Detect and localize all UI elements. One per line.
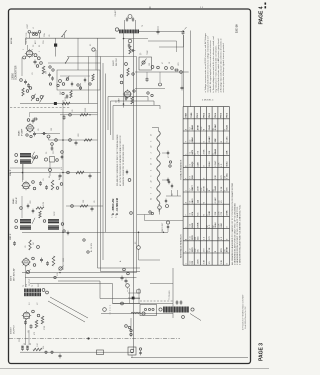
resistor R33 bbox=[80, 205, 88, 207]
IF strip right rail bbox=[62, 100, 64, 270]
svg-text:1: 1 bbox=[186, 263, 188, 264]
capacitor C15 bbox=[40, 258, 43, 263]
svg-text:C10: C10 bbox=[53, 151, 55, 154]
svg-text:6: 6 bbox=[151, 176, 153, 177]
svg-text:270: 270 bbox=[207, 188, 209, 191]
left of box capacitor b bbox=[51, 76, 54, 81]
svg-text:2.2M: 2.2M bbox=[43, 202, 45, 206]
capacitor C31 bbox=[75, 141, 78, 146]
capacitor C23 drop bbox=[146, 72, 148, 77]
FM coil form left leg bbox=[124, 20, 126, 30]
svg-text:NC: NC bbox=[197, 249, 199, 253]
terminal s4 bbox=[67, 171, 70, 174]
cap above trimmer bbox=[51, 143, 54, 146]
junction circle J2 bbox=[166, 221, 169, 224]
vertical drop 176 bbox=[176, 41, 178, 52]
wire row 168 bbox=[10, 167, 60, 169]
FM IF transformer T4B secondary bbox=[48, 225, 59, 229]
junction cluster bbox=[182, 30, 185, 35]
bus wire AVC no.2 bbox=[101, 57, 141, 272]
osc box capacitor b bbox=[84, 78, 86, 83]
svg-text:OUTPUT: OUTPUT bbox=[29, 278, 31, 286]
svg-text:a. Voltage measurements are at: a. Voltage measurements are at 20,000 oh… bbox=[204, 33, 207, 93]
svg-text:VOL: VOL bbox=[57, 272, 59, 276]
T4 tuning arrows bbox=[32, 218, 35, 224]
capacitor C22 bbox=[174, 69, 179, 72]
FM grid marks bbox=[128, 43, 130, 48]
capacitor C30 bbox=[63, 115, 66, 120]
svg-text:6BA6: 6BA6 bbox=[12, 198, 15, 204]
capacitor C17 bbox=[24, 320, 27, 325]
svg-text:7: 7 bbox=[151, 193, 153, 194]
coupling wire upper bbox=[58, 281, 140, 299]
svg-text:IF - 10.7MC-FM: IF - 10.7MC-FM bbox=[116, 198, 119, 215]
bus wire no.4 bbox=[105, 74, 107, 233]
T3 right side terminal bbox=[33, 157, 35, 159]
resistor R2 bbox=[42, 66, 45, 74]
wire lamp drop bbox=[131, 355, 133, 358]
wire row grid return bbox=[30, 112, 98, 114]
svg-text:33K: 33K bbox=[215, 175, 217, 179]
svg-text:47: 47 bbox=[168, 156, 170, 158]
capacitor C20 bbox=[59, 354, 62, 359]
below box terminal bbox=[62, 92, 64, 94]
svg-text:B+ 15-16V: B+ 15-16V bbox=[91, 242, 93, 252]
audio wire second row bbox=[25, 277, 137, 279]
svg-text:6: 6 bbox=[151, 141, 153, 142]
V4 pin terminal bbox=[32, 257, 35, 260]
terminal m2 bbox=[157, 66, 160, 69]
resistor R16 bbox=[127, 68, 129, 76]
capacitor C29 bbox=[125, 96, 127, 101]
wire FM IF row bbox=[135, 71, 189, 73]
T7 terminal right bbox=[191, 308, 194, 311]
wire row 214 bbox=[137, 214, 152, 216]
svg-text:R14: R14 bbox=[43, 346, 45, 349]
svg-text:b. Socket voltages measured to: b. Socket voltages measured to B- unless… bbox=[212, 36, 215, 92]
bus wire B+ no.1 bbox=[98, 38, 141, 268]
rail junction dot b bbox=[62, 172, 64, 174]
FM IF transformer T4B primary bbox=[48, 219, 59, 223]
wire trimmer top bbox=[51, 145, 53, 147]
bus tap capacitor bbox=[126, 170, 128, 175]
svg-text:R1: R1 bbox=[39, 45, 41, 47]
wire row osc bbox=[48, 62, 101, 64]
pilot lamp box bbox=[128, 347, 136, 355]
svg-text:6.3AC: 6.3AC bbox=[208, 136, 211, 143]
osc box wire bbox=[60, 75, 90, 77]
antenna coil circle a bbox=[32, 33, 34, 35]
heater cap a bbox=[167, 151, 170, 156]
wire right rows bbox=[148, 40, 177, 42]
svg-text:270: 270 bbox=[224, 249, 226, 252]
svg-text:LOOP: LOOP bbox=[27, 23, 29, 29]
wire row 88 bbox=[135, 88, 165, 90]
svg-text:.002: .002 bbox=[30, 201, 32, 205]
junction dot on chassis line bbox=[87, 337, 89, 339]
svg-text:minimum position, dial lamps l: minimum position, dial lamps lighted, ch… bbox=[222, 43, 225, 93]
svg-text:T5: T5 bbox=[32, 285, 34, 287]
svg-text:CONVERTER: CONVERTER bbox=[16, 65, 18, 80]
terminal fm d bbox=[125, 63, 128, 66]
speaker lead 1 bbox=[50, 297, 88, 318]
svg-text:T5: T5 bbox=[23, 285, 25, 287]
svg-text:MAXIMUM SYMMETRY OF RESPONSE C: MAXIMUM SYMMETRY OF RESPONSE CURVE bbox=[122, 144, 125, 186]
left of box terminal c bbox=[49, 83, 51, 85]
heater wire top hook bbox=[152, 128, 159, 132]
heater side terminal b bbox=[169, 165, 171, 167]
wire row 303 bbox=[113, 303, 174, 305]
svg-text:3.3K: 3.3K bbox=[197, 162, 199, 167]
filter electrolytic C19B bbox=[26, 346, 29, 351]
switch vertical 1 bbox=[129, 288, 131, 304]
heater bottom terminal bbox=[158, 206, 162, 210]
svg-text:PRI AND SEC WINDINGS OF RATIO: PRI AND SEC WINDINGS OF RATIO DET TRANS … bbox=[116, 134, 119, 186]
svg-text:5: 5 bbox=[39, 51, 41, 52]
capacitor C16 bbox=[46, 261, 49, 266]
AVC junction dot a bbox=[138, 232, 140, 234]
osc coil terminal 2 bbox=[62, 83, 65, 86]
resistor R1 bbox=[22, 88, 24, 96]
bus wire no.5 bbox=[133, 33, 135, 352]
svg-text:V-10: V-10 bbox=[190, 224, 192, 228]
nested corner wire 1 bbox=[108, 97, 148, 131]
wire row 56 bbox=[67, 56, 137, 58]
wire corner to table bbox=[145, 215, 184, 221]
fuse box bbox=[97, 350, 104, 355]
V3 pin terminal bbox=[32, 181, 35, 184]
svg-text:40: 40 bbox=[30, 343, 32, 345]
T4 terminal top bbox=[15, 220, 18, 223]
svg-text:85: 85 bbox=[213, 189, 215, 191]
pot arrow bbox=[142, 61, 145, 64]
stage feed stub 4 bbox=[66, 205, 103, 207]
svg-text:7: 7 bbox=[186, 215, 188, 216]
terminal fm a bbox=[120, 75, 123, 78]
chart cell entries bbox=[186, 124, 229, 265]
capacitor near E2 b bbox=[125, 279, 128, 284]
capacitor C3 bbox=[27, 83, 30, 88]
osc box terminal c bbox=[89, 83, 91, 85]
svg-text:3: 3 bbox=[151, 152, 153, 153]
rail junction dot a bbox=[62, 139, 64, 141]
svg-text:100: 100 bbox=[149, 63, 151, 66]
tube voltage and resistance chart grid bbox=[183, 107, 229, 266]
row 88 terminal b bbox=[151, 94, 153, 96]
capacitor C11 bbox=[45, 185, 48, 190]
wire det to output bbox=[25, 266, 27, 287]
svg-text:470K: 470K bbox=[203, 186, 205, 192]
T3 tuning arrows bbox=[32, 152, 35, 158]
capacitor C12 bbox=[27, 204, 30, 209]
svg-text:RATIO DET: RATIO DET bbox=[161, 222, 164, 232]
FM antenna caps bbox=[126, 17, 128, 22]
2nd IF amp tube V3 bbox=[21, 181, 30, 190]
svg-text:.05: .05 bbox=[38, 129, 40, 132]
svg-text:1: 1 bbox=[151, 170, 153, 171]
svg-text:C2: C2 bbox=[33, 45, 35, 47]
lamp lead terminal 1 bbox=[130, 329, 132, 331]
capacitor C7 molded bbox=[54, 102, 57, 105]
svg-text:3: 3 bbox=[32, 49, 34, 50]
choke terminal bbox=[142, 312, 145, 315]
terminal s3 bbox=[69, 139, 72, 142]
svg-text:L1: L1 bbox=[33, 27, 35, 29]
svg-text:4: 4 bbox=[186, 202, 188, 203]
svg-text:6BA6: 6BA6 bbox=[191, 136, 194, 142]
det row terminal a bbox=[63, 230, 65, 232]
stage feed stub 1 bbox=[60, 114, 98, 116]
svg-text:0: 0 bbox=[207, 215, 209, 216]
converter tube V1 12BE6 bbox=[25, 49, 34, 58]
terminal osc plate bbox=[29, 87, 32, 90]
svg-text:.01: .01 bbox=[43, 179, 45, 182]
V5 grid terminal bbox=[37, 314, 40, 317]
terminal avc row b bbox=[87, 251, 89, 253]
terminal f1 bbox=[37, 246, 40, 249]
AVC junction dot b bbox=[163, 232, 164, 233]
left rail junction bbox=[22, 172, 24, 174]
terminal on B+ bus b bbox=[51, 351, 53, 353]
svg-text:4: 4 bbox=[151, 187, 153, 188]
svg-text:V-8: V-8 bbox=[190, 201, 192, 204]
audio coupling wire bbox=[22, 272, 137, 274]
terminal osc grid bbox=[26, 90, 29, 93]
junction dot FM bbox=[123, 38, 125, 40]
svg-text:15C-16: 15C-16 bbox=[235, 24, 239, 33]
svg-text:E2: E2 bbox=[135, 242, 137, 244]
output tube V5 6V6 bbox=[22, 311, 31, 320]
svg-text:may vary plus or minus 20 perc: may vary plus or minus 20 percent with n… bbox=[214, 45, 217, 93]
resistor R30 bbox=[80, 114, 88, 117]
terminal m5 bbox=[180, 71, 183, 74]
AVC line long bbox=[22, 231, 168, 233]
V5 pin terminal bbox=[32, 310, 35, 313]
svg-text:PRI: PRI bbox=[26, 284, 28, 287]
svg-text:IF - 455KC-AM: IF - 455KC-AM bbox=[112, 199, 115, 215]
svg-text:V-6: V-6 bbox=[190, 176, 192, 179]
svg-text:3.3K: 3.3K bbox=[221, 259, 223, 264]
svg-text:6AT6: 6AT6 bbox=[10, 275, 13, 281]
switch vertical 2 bbox=[138, 288, 140, 304]
left rail wire bbox=[22, 164, 24, 182]
svg-text:V-13: V-13 bbox=[190, 261, 192, 265]
svg-text:1N2 OSC 1S5: 1N2 OSC 1S5 bbox=[26, 33, 28, 44]
terminal m1 bbox=[151, 66, 154, 69]
2nd IF transformer T3 secondary bbox=[20, 159, 31, 163]
svg-text:.05: .05 bbox=[94, 201, 96, 204]
wire FM row 38 bbox=[124, 38, 149, 40]
wire E2 drop bbox=[138, 232, 140, 245]
bus wire no.6 bbox=[136, 57, 138, 273]
resistor R6 bbox=[51, 180, 54, 190]
terminal m3 bbox=[165, 67, 168, 70]
svg-text:1: 1 bbox=[186, 190, 188, 191]
svg-text:6BA6: 6BA6 bbox=[226, 161, 229, 167]
V1 pin 7 terminal bbox=[37, 57, 40, 60]
svg-text:2ND IF: 2ND IF bbox=[16, 196, 18, 204]
T3 terminal top bbox=[15, 154, 18, 157]
det row capacitor bbox=[67, 231, 69, 236]
svg-text:.01: .01 bbox=[32, 73, 34, 76]
heater tick labels bbox=[151, 134, 153, 200]
interstage dashed lead bbox=[140, 300, 173, 302]
svg-text:6BA6: 6BA6 bbox=[18, 130, 21, 136]
svg-text:AERIAL: AERIAL bbox=[10, 37, 13, 44]
V7 side terminal bbox=[133, 90, 135, 92]
top frame tick 1 bbox=[149, 7, 151, 10]
svg-text:150: 150 bbox=[219, 200, 221, 203]
svg-text:FM OSC: FM OSC bbox=[116, 57, 118, 66]
svg-text:C19: C19 bbox=[19, 339, 21, 342]
svg-text:FM ANT: FM ANT bbox=[114, 9, 117, 16]
terminal fm b bbox=[120, 81, 123, 84]
heater bottom wire bbox=[159, 209, 161, 214]
capacitor near E2 a bbox=[121, 276, 124, 281]
below box capacitor bbox=[66, 94, 69, 99]
svg-text:PAGE 3: PAGE 3 bbox=[259, 343, 265, 361]
T4B terminal left bbox=[43, 220, 46, 223]
svg-text:33K: 33K bbox=[215, 211, 217, 215]
svg-text:PIN 3: PIN 3 bbox=[209, 113, 211, 118]
svg-text:6BA6: 6BA6 bbox=[208, 161, 211, 167]
svg-text:.002: .002 bbox=[78, 134, 80, 138]
capacitor C8 bbox=[42, 132, 47, 135]
svg-text:68: 68 bbox=[49, 176, 51, 178]
B+ bus wire bbox=[20, 351, 134, 353]
svg-text:6.3AC: 6.3AC bbox=[226, 136, 229, 142]
terminal near E2 a bbox=[123, 268, 126, 271]
svg-text:2ND IF: 2ND IF bbox=[10, 169, 12, 176]
FM antenna terminal bbox=[128, 15, 132, 19]
svg-text:33K: 33K bbox=[209, 150, 211, 154]
svg-text:6AL5: 6AL5 bbox=[158, 208, 161, 212]
capacitor C27 bbox=[180, 300, 183, 305]
left of box terminal a bbox=[49, 66, 51, 68]
FM grid terminal bbox=[128, 39, 132, 43]
svg-text:12BE6: 12BE6 bbox=[13, 72, 15, 80]
lamp side terminal bbox=[139, 348, 141, 350]
terminal mixer 2 bbox=[40, 62, 43, 65]
capacitor C10b bbox=[39, 181, 42, 186]
terminal mid bbox=[49, 169, 52, 172]
V1 pin 5 terminal bbox=[34, 54, 37, 57]
svg-text:OUTPUT: OUTPUT bbox=[13, 324, 15, 334]
T7 terminal left bbox=[159, 308, 162, 311]
T7 bottom terminal bbox=[182, 316, 185, 319]
svg-text:47: 47 bbox=[151, 163, 153, 165]
terminal s1 bbox=[69, 114, 72, 117]
svg-text:6.3AC: 6.3AC bbox=[214, 160, 217, 166]
svg-text:TUBE: TUBE bbox=[191, 112, 193, 118]
svg-text:8: 8 bbox=[151, 158, 153, 159]
V3 cathode terminal bbox=[33, 187, 36, 190]
wire trimmer drop bbox=[49, 162, 51, 169]
svg-text:measured with 1000 ohm meter.: measured with 1000 ohm meter. Line volta… bbox=[207, 35, 210, 92]
squiggle bottom join b bbox=[177, 190, 179, 196]
svg-text:AT 10.7MC WITH SWEEP GENERATOR: AT 10.7MC WITH SWEEP GENERATOR AND SCOPE… bbox=[119, 135, 122, 186]
terminal lug bbox=[103, 308, 107, 312]
E1 feed vertical bbox=[88, 57, 90, 104]
svg-text:3RD IF: 3RD IF bbox=[10, 233, 12, 240]
left of box terminal b bbox=[52, 69, 54, 71]
svg-text:85: 85 bbox=[207, 250, 209, 252]
osc box resistor bbox=[92, 74, 94, 81]
binding mark top right edge bbox=[265, 3, 267, 5]
svg-text:1: 1 bbox=[186, 227, 188, 228]
svg-text:4: 4 bbox=[186, 166, 188, 167]
terminal V2 screen bbox=[47, 135, 50, 138]
osc feed vertical bbox=[77, 38, 79, 70]
svg-text:.001: .001 bbox=[178, 63, 180, 67]
capacitor C34 bbox=[91, 207, 94, 212]
svg-text:DET-AVC-AF: DET-AVC-AF bbox=[12, 267, 15, 281]
3rd IF transformer T4 primary bbox=[20, 219, 31, 223]
audio row terminal a bbox=[54, 276, 56, 278]
bottom wire row bbox=[131, 357, 248, 359]
capacitor C14 bbox=[13, 241, 16, 246]
T4 terminal bottom bbox=[15, 226, 18, 229]
terminal d2 bbox=[60, 183, 63, 186]
IF amp tube V2 6BA6 bbox=[25, 123, 34, 132]
chassis dash-dot line bbox=[9, 338, 180, 340]
svg-text:c. Measured with selector swit: c. Measured with selector switch in AM p… bbox=[217, 38, 220, 93]
svg-text:V-12: V-12 bbox=[190, 248, 192, 252]
terminal s2 bbox=[55, 139, 58, 142]
svg-text:470K: 470K bbox=[196, 125, 199, 131]
bus pair right 1 bbox=[183, 35, 185, 107]
T3 side trimmer circle bbox=[35, 156, 38, 159]
heater side capacitor a bbox=[168, 180, 170, 185]
svg-text:3.3K: 3.3K bbox=[209, 247, 211, 252]
svg-text:T6: T6 bbox=[142, 25, 144, 27]
terminal drop 160 bbox=[159, 72, 161, 83]
svg-text:22: 22 bbox=[151, 146, 153, 148]
svg-text:3.3K: 3.3K bbox=[221, 223, 223, 228]
svg-text:3 TAKEN WITH VACUUM TUBE VOLTM: 3 TAKEN WITH VACUUM TUBE VOLTMETER, LINE… bbox=[239, 204, 242, 265]
resistor R9 bbox=[29, 240, 31, 250]
vertical lamp lead bbox=[130, 318, 132, 337]
oscillator shield box bbox=[57, 70, 100, 90]
svg-text:470K: 470K bbox=[203, 149, 205, 155]
svg-text:7: 7 bbox=[186, 251, 188, 252]
osc box capacitor a bbox=[71, 82, 73, 87]
svg-text:V-3: V-3 bbox=[190, 140, 192, 143]
gang dashed link bbox=[10, 107, 70, 109]
svg-text:NC: NC bbox=[197, 212, 199, 216]
mains vertical bbox=[172, 268, 174, 318]
terminal mixer bbox=[36, 65, 39, 68]
junction dot s1 bbox=[89, 114, 90, 115]
loop antenna L1 bbox=[28, 31, 31, 34]
lug dashes bbox=[109, 305, 111, 315]
svg-text:C9: C9 bbox=[46, 152, 48, 154]
svg-text:volts AC. No signal applied, v: volts AC. No signal applied, volume cont… bbox=[209, 39, 212, 92]
filter choke L2 bbox=[131, 312, 141, 313]
wire screen drop bbox=[48, 138, 50, 140]
svg-text:E1: E1 bbox=[90, 44, 92, 46]
svg-text:33K: 33K bbox=[215, 138, 217, 142]
svg-text:V-9: V-9 bbox=[190, 213, 192, 216]
T4B terminal right bbox=[61, 223, 64, 226]
terminal fm c bbox=[132, 73, 134, 75]
svg-text:12AT7: 12AT7 bbox=[191, 184, 194, 191]
svg-text:.05: .05 bbox=[72, 110, 74, 113]
svg-text:3.3K: 3.3K bbox=[221, 186, 223, 191]
capacitor C13 bbox=[32, 209, 35, 214]
grid wire bbox=[21, 196, 23, 218]
volume pot circle bbox=[26, 270, 29, 273]
